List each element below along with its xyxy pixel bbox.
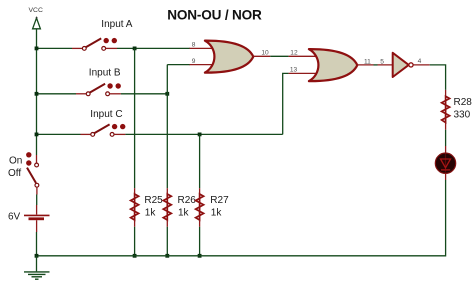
node junction rowA/R25: [133, 47, 137, 51]
svg-text:9: 9: [192, 58, 196, 65]
switch Input C: [81, 124, 126, 136]
led D1: [435, 146, 455, 180]
wire inverter output to R28: [430, 65, 446, 90]
wire R25 drop from row A: [134, 48, 136, 188]
svg-text:8: 8: [192, 42, 196, 49]
wire R27 drop from row C junction: [199, 134, 201, 188]
node junction R26/bottom rail: [165, 254, 169, 258]
node junction bus/rowA: [35, 47, 39, 51]
node junction bus/rowC: [35, 133, 39, 137]
battery BAT1 (cell): [24, 205, 50, 232]
svg-text:10: 10: [261, 50, 269, 57]
wire row A switch to junction to gate pin 8: [117, 47, 190, 49]
svg-text:5: 5: [380, 58, 384, 65]
wire R26 to bottom rail: [166, 227, 168, 256]
node junction R25/bottom rail: [133, 254, 137, 258]
svg-text:1k: 1k: [178, 207, 190, 218]
inverter U3 (NOT buffer): [393, 53, 413, 77]
svg-text:R27: R27: [210, 195, 229, 206]
wire row C from bus to switch: [37, 133, 81, 135]
pin 9 stub: [190, 64, 214, 66]
svg-text:VCC: VCC: [29, 7, 43, 14]
svg-text:R26: R26: [178, 195, 197, 206]
node junction rowC/R27: [198, 133, 202, 137]
wire pin13 riser from row C: [283, 73, 289, 134]
svg-text:6V: 6V: [8, 212, 21, 223]
wire row B from bus to switch: [37, 93, 77, 95]
pin 10 stub (gate1 output): [253, 55, 270, 57]
svg-text:4: 4: [418, 58, 422, 65]
svg-text:Input A: Input A: [101, 19, 132, 30]
pin 11 stub (gate2 output): [357, 64, 373, 66]
svg-text:R25: R25: [144, 195, 163, 206]
wire R28 to LED: [445, 130, 447, 146]
wire LED to bottom rail: [37, 180, 446, 256]
svg-text:1k: 1k: [211, 207, 223, 218]
node junction bus/rowB: [35, 92, 39, 96]
or-gate U2 (second OR): [309, 49, 357, 81]
resistor R27: [196, 188, 204, 227]
svg-text:12: 12: [290, 49, 298, 56]
svg-text:On: On: [9, 155, 22, 166]
svg-text:Input B: Input B: [89, 68, 121, 79]
node junction battery/bottom rail: [35, 254, 39, 258]
wire R25 to bottom rail: [134, 227, 136, 256]
svg-text:Input C: Input C: [90, 109, 122, 120]
pin 8 stub: [190, 47, 214, 49]
node junction rowB/R26/pin9: [165, 92, 169, 96]
wire pin10 to pin12: [270, 55, 288, 57]
pin 13 stub: [289, 72, 318, 74]
pin 12 stub: [289, 55, 318, 57]
wire pin9 horizontal: [167, 64, 190, 66]
wire battery to bottom rail: [36, 232, 38, 256]
wire row A from bus to switch: [37, 47, 73, 49]
svg-text:11: 11: [364, 58, 371, 65]
switch Input B: [76, 83, 121, 95]
resistor R28: [442, 90, 450, 130]
wire row C switch to corner below pin 13: [125, 133, 282, 135]
wire row B switch to junction: [121, 93, 167, 95]
wire pin9 riser from row B junction: [166, 65, 168, 94]
resistor R25: [131, 188, 139, 227]
svg-text:330: 330: [454, 109, 471, 120]
svg-text:R28: R28: [454, 97, 473, 108]
power VCC arrow symbol: [33, 18, 41, 29]
svg-text:NON-OU / NOR: NON-OU / NOR: [167, 8, 262, 23]
pin 4 stub (inverter output): [413, 64, 429, 66]
svg-text:Off: Off: [8, 168, 21, 179]
resistor R26: [163, 188, 171, 227]
svg-text:13: 13: [290, 67, 298, 74]
wire switch to battery: [36, 195, 38, 206]
wire pin11 to pin5: [374, 64, 378, 66]
node junction R27/bottom rail: [198, 254, 202, 258]
pin 5 stub: [378, 64, 395, 66]
or-gate U1 (first OR): [205, 41, 253, 73]
wire R27 to bottom rail: [199, 227, 201, 256]
switch Input A: [72, 38, 117, 50]
wire R26 drop from row B junction: [166, 94, 168, 188]
switch SW On/Off (vertical): [26, 152, 39, 194]
wire VCC bus vertical: [36, 29, 38, 155]
svg-text:1k: 1k: [145, 207, 157, 218]
ground symbol: [24, 256, 50, 279]
